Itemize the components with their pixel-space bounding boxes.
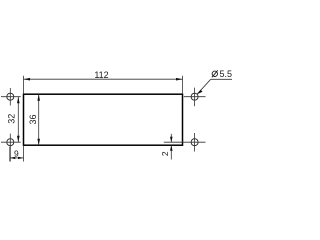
- dimension 2 arrow down: [170, 137, 173, 143]
- leader line diagonal for hole diameter: [197, 79, 211, 94]
- hole H3 top-right circle: [191, 93, 198, 100]
- dimension 32 arrow up: [17, 97, 20, 104]
- leader arrowhead: [197, 90, 202, 95]
- hole H3 center lines: [184, 88, 206, 107]
- hole H2 bottom-left circle: [7, 139, 14, 146]
- dimension 9 arrow right: [18, 157, 24, 159]
- dimension 9 arrow left: [10, 157, 16, 159]
- hole H4 bottom-right circle: [191, 139, 198, 146]
- dimension 112 extension line left: [23, 76, 25, 94]
- dimension 36 line: [38, 94, 40, 145]
- svg-text:32: 32: [7, 114, 17, 124]
- dimension 112 line: [24, 78, 183, 80]
- dimension 112 arrow right: [176, 78, 183, 81]
- dimension 2 arrow up: [170, 145, 173, 151]
- dimension 2 lower line: [170, 145, 172, 159]
- dimension 36 arrow down: [37, 139, 40, 146]
- dimension 9 line: [10, 157, 24, 159]
- svg-text:112: 112: [94, 70, 108, 80]
- svg-text:9: 9: [14, 148, 19, 158]
- diameter symbol: [212, 70, 218, 77]
- hole H4 center lines: [164, 133, 206, 152]
- dimension 112 extension line right: [182, 76, 184, 94]
- svg-text:5.5: 5.5: [220, 69, 233, 79]
- dimension 36 arrow up: [37, 94, 40, 101]
- dimension 32 line: [17, 97, 19, 143]
- hole H2 center lines: [1, 134, 21, 162]
- dimension 32 arrow down: [17, 136, 20, 143]
- dimension 9 extension line left: [9, 147, 11, 162]
- svg-text:2: 2: [160, 151, 170, 156]
- dimension 112 arrow left: [24, 78, 31, 81]
- dimension 2 upper line: [170, 134, 172, 142]
- leader line horizontal: [211, 78, 232, 80]
- hole H1 center lines: [1, 88, 21, 106]
- hole H1 top-left circle: [7, 93, 14, 100]
- svg-text:36: 36: [28, 114, 38, 124]
- cutout outline rectangle: [24, 94, 183, 145]
- dimension 9 extension line right: [23, 145, 25, 161]
